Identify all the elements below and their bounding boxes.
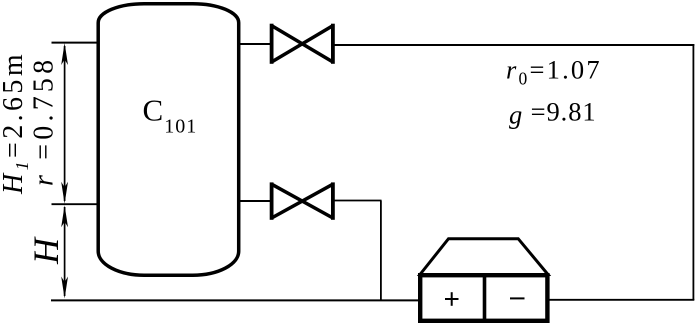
wire: valve V2 to vertical drop [332,200,382,202]
svg-text:r =0.758: r =0.758 [29,56,60,186]
label plus terminal [445,292,459,306]
svg-text:r0=1.07: r0=1.07 [506,54,602,88]
wire: valve V1 to right edge [332,44,694,46]
wire: vessel top to valve V1 [240,43,272,45]
valve V1 (top tapping valve) [272,24,333,64]
dimension line for H1 / r (upper span with arrowheads) [61,43,68,204]
svg-text:C101: C101 [143,93,198,138]
dimension line for H (lower span with arrowheads) [61,205,68,298]
wire: bottom run to transmitter plus side [51,299,420,301]
svg-text:H: H [26,236,66,265]
wire: top-left pipe from vessel to dimension reference [52,42,98,44]
svg-text:g =9.81: g =9.81 [509,96,597,129]
valve V2 (bottom tapping valve) [272,182,333,219]
wire: vessel side to valve V2 [240,200,272,202]
label minus terminal [510,297,525,299]
wire: vertical drop to bottom run [380,201,382,301]
differential pressure transmitter body [420,239,548,321]
liquid level reference tick [52,203,98,205]
wire: bottom-right run to transmitter minus side [549,299,694,301]
svg-text:H1=2.65m: H1=2.65m [0,51,32,195]
wire: right-side vertical drop [692,44,694,300]
vessel C101 [98,4,239,276]
